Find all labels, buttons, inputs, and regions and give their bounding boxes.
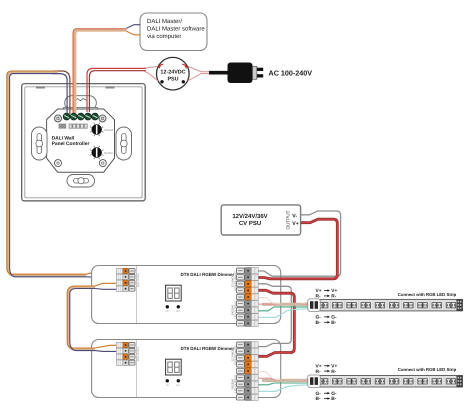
svg-text:R-: R- — [316, 294, 321, 300]
strip 2 input connector — [308, 375, 320, 388]
RGB LED strip 2 — [308, 375, 463, 388]
svg-text:DALI DALI: DALI DALI — [136, 273, 140, 287]
svg-text:G-: G- — [331, 391, 337, 397]
svg-text:SET: SET — [176, 384, 181, 387]
svg-text:AC 100-240V: AC 100-240V — [269, 69, 313, 78]
svg-text:G-: G- — [316, 315, 322, 321]
strip 2 PCB bar — [318, 376, 463, 388]
svg-text:CV PSU: CV PSU — [239, 220, 261, 227]
dimmer 2 power/LED terminal block (right) — [237, 342, 245, 347]
dimmer 2 DALI terminal block (left) — [116, 342, 123, 347]
CV PSU V- gray wire to dimmer1 — [259, 211, 341, 276]
svg-text:V+: V+ — [316, 364, 322, 370]
svg-text:R-: R- — [316, 369, 321, 375]
dimmer 2 push buttons — [166, 379, 169, 382]
controller interior — [32, 113, 132, 187]
svg-text:G-: G- — [331, 315, 337, 321]
dimmer 1 power/LED terminal block (right) — [237, 268, 245, 273]
DALI bus bundle down left edge to dimmer1 — [7, 71, 117, 277]
svg-text:12V/24V/36V: 12V/24V/36V — [232, 213, 267, 220]
svg-text:POWER INPUT: POWER INPUT — [233, 271, 237, 291]
DALI Master box — [140, 13, 207, 51]
V+ chain wire dimmer1 to dimmer2 — [259, 290, 295, 356]
svg-text:B-: B- — [316, 396, 321, 402]
svg-text:LED OUTPUT: LED OUTPUT — [233, 301, 237, 319]
AC plug — [209, 63, 263, 84]
dimmer 1 push buttons — [166, 305, 169, 308]
DALI wall panel controller — [22, 84, 146, 201]
LED output cable dimmer2 to strip2 — [259, 372, 309, 392]
12-24VDC PSU — [157, 57, 190, 90]
dimmer 1 DALI terminal block (left) — [116, 268, 123, 273]
strip 2 wiring labels — [316, 364, 457, 403]
DALI bus bundle dimmer1 to dimmer2 — [67, 283, 116, 351]
dimmer 2 internals — [116, 340, 258, 400]
svg-text:12-24VDC: 12-24VDC — [160, 69, 185, 75]
svg-text:DALI Master/: DALI Master/ — [147, 18, 182, 25]
DT8 dimmer 2 body — [92, 340, 281, 398]
dimmer 2 7-segment address display — [166, 359, 182, 375]
svg-text:Scene: Scene — [104, 151, 113, 155]
svg-text:B-: B- — [331, 320, 336, 326]
LED output cable dimmer1 to strip1 — [259, 298, 309, 318]
RGB LED strip 1 — [308, 299, 463, 312]
DT8 dimmer 1 body — [92, 266, 281, 324]
red wire pair controller to PSU — [87, 68, 146, 112]
svg-text:B-: B- — [316, 320, 321, 326]
svg-text:R-: R- — [331, 294, 336, 300]
svg-text:SET: SET — [176, 310, 181, 313]
svg-text:PSU: PSU — [167, 76, 178, 82]
svg-text:V-: V- — [292, 213, 297, 219]
dimmer 1 internals — [116, 266, 258, 326]
svg-text:DALI Wall: DALI Wall — [52, 135, 75, 141]
svg-text:DALI Master software: DALI Master software — [147, 26, 205, 33]
V- chain wire dimmer1 to dimmer2 — [259, 284, 292, 347]
strip 1 wiring labels — [316, 288, 457, 326]
svg-text:Connect with RGB LED Strip: Connect with RGB LED Strip — [398, 292, 457, 297]
strip 1 input connector — [308, 299, 320, 312]
svg-text:B-: B- — [331, 396, 336, 402]
strip 1 PCB bar — [318, 299, 463, 311]
svg-text:OUTPUT: OUTPUT — [285, 210, 290, 229]
svg-text:Connect with RGB LED Strip: Connect with RGB LED Strip — [398, 367, 457, 372]
svg-text:V+: V+ — [331, 288, 337, 294]
strip 1 end pads — [457, 299, 463, 311]
dimmer 1 7-segment address display — [166, 285, 182, 301]
svg-text:Circuit: Circuit — [104, 128, 113, 132]
svg-text:V+: V+ — [292, 221, 299, 227]
wire bundle controller to DALI Master — [73, 29, 127, 113]
svg-text:DT8 DALI RGBW Dimmer: DT8 DALI RGBW Dimmer — [181, 272, 235, 277]
strip 2 end pads — [457, 376, 463, 388]
svg-text:V+: V+ — [316, 288, 322, 294]
fork wires into DALI Master — [127, 25, 141, 29]
CV PSU V+ red wire to dimmer1 — [259, 219, 338, 279]
svg-text:G-: G- — [316, 391, 322, 397]
CV PSU box — [221, 205, 300, 235]
svg-text:POWER INPUT: POWER INPUT — [233, 345, 237, 365]
svg-text:R-: R- — [331, 369, 336, 375]
svg-text:DT8 DALI RGBW Dimmer: DT8 DALI RGBW Dimmer — [181, 346, 235, 351]
svg-text:LED OUTPUT: LED OUTPUT — [233, 375, 237, 393]
svg-text:via computer: via computer — [147, 33, 181, 40]
svg-text:DALI DALI: DALI DALI — [136, 347, 140, 361]
svg-text:Panel Controller: Panel Controller — [52, 141, 90, 147]
svg-text:UP: UP — [166, 384, 170, 387]
svg-text:UP: UP — [166, 310, 170, 313]
red wire pair controller to PSU (forks) — [144, 66, 212, 81]
DALI bus wires into controller — [52, 71, 70, 114]
svg-text:V+: V+ — [331, 364, 337, 370]
